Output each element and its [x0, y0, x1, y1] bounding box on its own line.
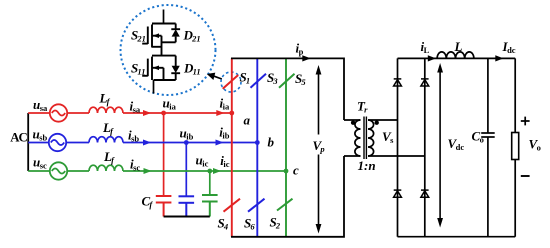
wire capacitor drop c	[209, 171, 211, 195]
wire phase b to inductor	[66, 142, 89, 144]
diode upper left	[394, 79, 402, 86]
voltage arrow V_dc	[437, 63, 443, 228]
wire phase c to bus	[123, 170, 286, 172]
capacitor Cf phase c	[202, 195, 218, 217]
current arrow i_sc	[144, 168, 152, 174]
current arrow i_ib	[216, 140, 224, 146]
svg-text:b: b	[268, 135, 275, 150]
wire top bus to transformer	[231, 58, 344, 120]
switch S3	[251, 74, 267, 88]
current arrow i_sb	[143, 140, 151, 146]
svg-text:1:n: 1:n	[358, 158, 376, 173]
node u_ic	[207, 169, 212, 174]
inductor Lf phase c	[89, 165, 123, 171]
wire source lead a	[28, 112, 50, 114]
wire primary bottom lead	[344, 155, 361, 157]
bus leg phase b	[256, 58, 258, 236]
inductor L	[437, 52, 474, 59]
wire rectifier top rail	[398, 57, 516, 59]
current arrow i_sa	[143, 110, 151, 116]
bus leg phase a	[231, 58, 233, 236]
inductor Lf phase b	[89, 137, 123, 143]
wire load branch bottom	[514, 160, 516, 237]
svg-text:AC: AC	[10, 131, 27, 145]
junction dot phase a on bus	[229, 111, 234, 116]
ac source u_sc	[50, 162, 67, 179]
wire source lead b	[28, 142, 49, 144]
bus leg phase c	[285, 58, 287, 236]
wire primary top lead	[344, 119, 361, 121]
capacitor Cf phase a	[156, 196, 172, 217]
voltage arrow V_p	[310, 65, 327, 234]
diode D21	[162, 24, 181, 43]
wire capacitor drop b	[185, 143, 187, 197]
annotation arrow from S1 to detail circle	[207, 73, 222, 80]
transistor S21	[142, 24, 176, 56]
wire secondary top lead	[368, 119, 398, 121]
wire source lead c	[28, 170, 50, 172]
svg-text:L: L	[454, 39, 463, 54]
wire capacitor common bottom	[164, 216, 210, 218]
polarity dot secondary	[375, 121, 379, 125]
inductor Lf phase a	[89, 107, 123, 113]
wire load branch top	[514, 58, 516, 132]
wire bottom bus to transformer	[231, 156, 344, 237]
switch S1	[223, 75, 239, 89]
wire phase c to inductor	[67, 170, 89, 172]
wire phase a to inductor	[67, 112, 89, 114]
current arrow i_ia	[216, 110, 224, 116]
ac source u_sa	[50, 104, 67, 121]
capacitor Cf phase b	[179, 196, 195, 216]
diode upper right	[421, 79, 429, 86]
plus sign	[521, 117, 530, 126]
wire phase b to bus	[123, 142, 257, 144]
diode lower left	[394, 190, 402, 197]
wire exit from detail circle	[153, 80, 155, 94]
switch S2	[277, 199, 293, 211]
capacitor Co	[481, 58, 495, 236]
wire AC bracket	[27, 113, 29, 171]
minus sign	[521, 175, 530, 177]
transistor S11	[142, 56, 176, 80]
svg-text:c: c	[293, 163, 299, 178]
node u_ib	[184, 140, 189, 145]
diode D11	[171, 56, 180, 80]
switch S5	[279, 74, 295, 88]
diode lower right	[421, 190, 429, 197]
current arrow i_ic	[213, 168, 221, 174]
wire phase a to bus	[123, 112, 232, 114]
switch S6	[248, 199, 265, 212]
wire secondary bottom lead	[368, 155, 425, 157]
transformer secondary winding	[368, 120, 374, 156]
current arrow i_p	[302, 55, 311, 61]
ac source u_sb	[49, 134, 66, 151]
junction dot phase b on bus	[255, 140, 260, 145]
node u_ia	[161, 111, 166, 116]
load resistor	[512, 133, 519, 160]
wire capacitor drop a	[163, 113, 165, 196]
dashed circle around switch S1	[221, 72, 241, 92]
current arrow i_L	[428, 55, 436, 61]
transformer core	[364, 117, 366, 160]
wire bridge left leg	[397, 58, 399, 236]
junction dot phase c on bus	[284, 169, 289, 174]
dotted detail circle	[121, 5, 216, 95]
wire bridge right leg	[424, 58, 426, 236]
wire entry into detail circle	[163, 10, 165, 24]
svg-text:a: a	[244, 113, 251, 128]
polarity dot primary	[351, 121, 355, 125]
transformer Tr primary winding	[355, 120, 361, 156]
switch S4	[224, 199, 241, 212]
wire rectifier bottom rail	[398, 236, 516, 238]
current arrow I_dc	[495, 55, 503, 61]
